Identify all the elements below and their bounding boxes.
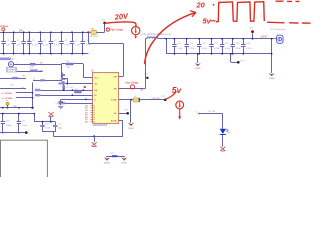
svg-text:GND: GND [39, 70, 44, 72]
node IN net red text [40, 63, 43, 65]
wire FB1 to TP1 corner [97, 23, 105, 32]
svg-text:L1 P/N: XAL5030-472MEC 4.7uH: L1 P/N: XAL5030-472MEC 4.7uH [140, 33, 171, 36]
wire elbow to cap pair [33, 113, 55, 122]
wire U1 VDD pin to 20V vertical [119, 76, 124, 78]
svg-text:4.7uF: 4.7uF [75, 45, 81, 47]
test point GND stub with black dot [230, 53, 243, 64]
svg-text:C12: C12 [55, 103, 58, 105]
wire rail y113.6 [0, 113, 34, 115]
wire VOUT top rail [159, 38, 273, 40]
svg-text:D1: D1 [227, 130, 229, 132]
svg-text:PGND: PGND [121, 162, 127, 164]
capacitor C4 [22, 31, 31, 54]
svg-text:49.9: 49.9 [29, 67, 33, 69]
capacitor C6 [38, 31, 49, 54]
annotation 5v text [172, 85, 183, 95]
wire diode to TP7 [140, 99, 165, 101]
wire resistor R7 row [200, 114, 223, 129]
svg-text:4.7uF: 4.7uF [202, 48, 208, 50]
node nc marker gray [60, 128, 62, 130]
wire left vertical x32.5 [32, 83, 34, 108]
wire loop left vertical [61, 64, 67, 84]
wire VOUT bottom rail [166, 53, 271, 55]
test point TP1 [101, 20, 106, 24]
wire AGND long run [53, 135, 123, 137]
wire HI signal stub [0, 85, 26, 90]
capacitor C17 vertical [62, 84, 73, 91]
wire 20V rail junction down to VDD [87, 31, 123, 76]
wire rail y107.8 [0, 107, 34, 109]
annotation arrow swoosh [145, 11, 196, 64]
node red NC marker [84, 86, 86, 88]
svg-text:High Voltage: High Voltage [110, 29, 124, 32]
annotation 5V wire (hand-drawn) [166, 92, 176, 99]
svg-text:TP6: TP6 [124, 110, 127, 112]
wire J2 to R1 [14, 64, 62, 66]
svg-text:R5: R5 [66, 61, 68, 63]
wire VOUT bank left vertical [165, 38, 167, 54]
capacitor C22 [220, 38, 231, 55]
svg-text:PGND: PGND [195, 68, 201, 70]
svg-text:4.7uF: 4.7uF [246, 48, 252, 50]
annotation 20V supply wire (hand-drawn) [105, 22, 136, 26]
node black dot GND [25, 131, 30, 135]
svg-text:PGND: PGND [111, 100, 118, 102]
node 20V net label [19, 30, 24, 32]
node part number LMG1020YFF [93, 125, 108, 127]
wire row into HB pin [59, 82, 93, 85]
svg-text:1: 1 [275, 34, 276, 36]
node U1 right pin stubs [119, 77, 121, 121]
capacitor C10b [1, 113, 12, 134]
svg-text:R7 1.0k: R7 1.0k [209, 111, 216, 113]
node HI_SIGNAL red label [2, 92, 33, 95]
svg-text:4.7uF: 4.7uF [190, 48, 196, 50]
svg-text:20V: 20V [113, 11, 129, 22]
svg-text:PGND: PGND [269, 78, 275, 80]
connector J2 SMA [6, 62, 17, 72]
node U1 NC pin cluster [85, 105, 96, 123]
connector J4 VOUT [270, 28, 285, 44]
wire net tie NT1 [107, 153, 125, 157]
wire LED to ground [222, 135, 224, 147]
resistor R5 loop [61, 61, 83, 69]
svg-text:MPZ1608: MPZ1608 [90, 36, 98, 38]
capacitor C9 [70, 31, 81, 54]
svg-text:IN-: IN- [114, 113, 117, 115]
svg-text:AGND: AGND [104, 161, 110, 164]
wire AGND from U1 [119, 121, 123, 137]
wire VOUT right vertical [271, 38, 273, 73]
svg-text:Low Voltage: Low Voltage [0, 25, 9, 28]
svg-text:AGND: AGND [111, 120, 118, 123]
svg-text:4.7k: 4.7k [66, 67, 70, 69]
ferrite bead FB1 [90, 28, 98, 38]
svg-text:4.7uF: 4.7uF [54, 45, 60, 47]
capacitor C5 [27, 31, 38, 54]
svg-text:EN: EN [114, 88, 117, 90]
test point TP2 [249, 27, 254, 39]
annotation 20 text [196, 0, 215, 9]
capacitor C23 [231, 38, 242, 55]
wire row into HI pin [35, 89, 93, 91]
svg-text:VCC: VCC [94, 77, 99, 79]
annotation inductor part number text [140, 33, 171, 36]
node net label IN box [0, 58, 14, 62]
capacitor C15 [53, 122, 62, 132]
svg-text:LMG1020YFF: LMG1020YFF [93, 125, 108, 127]
diode D2 [133, 96, 140, 102]
wire row into LI pin [35, 94, 93, 96]
svg-text:C17 1nF: C17 1nF [66, 87, 74, 89]
wire rail y132.6 [0, 132, 26, 134]
svg-text:4.7uF: 4.7uF [236, 48, 242, 50]
resistor R1 [29, 63, 35, 69]
svg-text:HI_SIGNAL: HI_SIGNAL [2, 92, 13, 95]
capacitor C12 [55, 99, 63, 105]
wire GND bottom rail left bank [0, 53, 88, 55]
capacitor C19 [185, 38, 196, 55]
svg-text:VOUT: VOUT [261, 35, 268, 38]
capacitor C21 [209, 38, 220, 55]
svg-text:4.7uF: 4.7uF [214, 48, 220, 50]
wire row y103.2 [59, 102, 93, 104]
wire row y99.4 [61, 99, 93, 101]
svg-text:nc: nc [60, 128, 62, 130]
svg-text:5V0: 5V0 [13, 106, 16, 108]
svg-text:4.7uF: 4.7uF [64, 45, 70, 47]
node OUT net label red [140, 90, 143, 92]
svg-text:5v: 5v [203, 16, 212, 25]
ground red X above cap pair [48, 112, 53, 123]
svg-text:LED: LED [227, 133, 231, 135]
test point TP9 yellow [5, 100, 9, 107]
node red label on rail [13, 106, 16, 108]
svg-text:C14: C14 [45, 123, 48, 125]
capacitor C11b [17, 113, 28, 134]
svg-text:UIN: UIN [113, 76, 117, 78]
svg-text:4.7uF: 4.7uF [43, 45, 49, 47]
wire net row y80.5 [33, 79, 62, 82]
wire net row y78 [0, 76, 26, 80]
svg-text:5V0_5V5: 5V0_5V5 [152, 98, 161, 100]
ground PGND below diode [128, 100, 134, 130]
svg-text:20V: 20V [19, 30, 24, 32]
svg-text:TP9: TP9 [5, 100, 8, 102]
capacitor C14 [40, 121, 51, 132]
resistor R7 label [209, 111, 216, 113]
capacitor C2 [1, 31, 10, 54]
svg-text:100pF: 100pF [6, 125, 12, 127]
LED D1 [220, 129, 232, 135]
op-amp U1 LMG1020 gate driver [91, 69, 119, 123]
ground PGND arrow right [121, 156, 127, 164]
svg-text:D2: D2 [134, 96, 136, 98]
ground PGND right [269, 73, 275, 80]
node U1 right pin names [111, 76, 118, 122]
ground below C12 [58, 107, 63, 109]
ground red X on AGND [92, 136, 97, 146]
capacitor C24 [241, 38, 252, 55]
svg-text:4.7uF: 4.7uF [225, 48, 231, 50]
ground PGND drop left [195, 53, 201, 70]
annotation voltage source circle 20V [132, 27, 140, 39]
capacitor C13 [61, 73, 65, 78]
annotation square wave [216, 1, 310, 23]
svg-text:TP5: TP5 [144, 74, 147, 76]
annotation 20V text [113, 11, 129, 22]
svg-text:4.7uF: 4.7uF [86, 45, 92, 47]
svg-text:20: 20 [196, 0, 206, 9]
svg-text:C15: C15 [58, 123, 61, 125]
resistor R4 [74, 89, 82, 93]
wire cap pair bottom [43, 132, 56, 137]
wire 20V top rail left bank [0, 32, 91, 34]
node High Voltage marker at OUT [126, 81, 140, 89]
svg-text:NT1: NT1 [111, 153, 114, 155]
test point TP6 [119, 110, 129, 115]
svg-text:R4 0: R4 0 [75, 89, 79, 91]
svg-text:VOUT (drive top): VOUT (drive top) [270, 28, 285, 31]
svg-text:0.1uF: 0.1uF [22, 125, 28, 127]
svg-text:TP4: TP4 [240, 61, 243, 63]
ground red X below LED [220, 147, 225, 151]
wire 5V supply row [119, 99, 134, 101]
wire J2 ground row [17, 69, 44, 72]
node LO_SIGNAL red label [2, 97, 33, 100]
node High Voltage marker at TP1 [106, 28, 124, 32]
node pin 2 red marker [196, 112, 200, 115]
node 5V net label red [152, 98, 161, 100]
sheet block bottom left [1, 140, 48, 178]
svg-text:4.7uF: 4.7uF [32, 45, 38, 47]
svg-text:TP7: TP7 [161, 96, 164, 98]
capacitor C10 [81, 31, 92, 54]
inductor L1 [146, 37, 160, 39]
svg-text:1: 1 [16, 62, 17, 64]
node VOUT net label [261, 35, 268, 38]
svg-text:5v: 5v [172, 85, 183, 95]
capacitor C3 [12, 31, 21, 54]
node Low Voltage marker [0, 25, 9, 31]
capacitor C8 [59, 31, 70, 54]
svg-text:2: 2 [196, 112, 197, 114]
test point TP7 [161, 96, 166, 101]
capacitor C20 [197, 38, 208, 55]
test point TP5 [144, 74, 148, 79]
svg-text:High Voltage: High Voltage [126, 81, 140, 84]
wire OUT net to inductor [119, 39, 146, 89]
annotation 5V text [203, 16, 216, 25]
annotation voltage source circle 5V [176, 101, 184, 120]
wire loop right vertical [83, 64, 92, 78]
svg-text:GD: GD [94, 83, 98, 85]
node U1 left pin stubs [90, 78, 92, 104]
ground below C13 [60, 80, 65, 83]
svg-text:4.7uF: 4.7uF [177, 48, 183, 50]
capacitor C18 [172, 38, 183, 55]
svg-text:2.2uF: 2.2uF [45, 128, 51, 130]
node U1 left pin names [94, 77, 99, 101]
ground AGND arrow left [104, 156, 110, 164]
svg-text:PGND: PGND [128, 128, 134, 130]
svg-text:IN8: IN8 [85, 122, 88, 124]
capacitor C7 [49, 31, 60, 54]
svg-text:R2 0: R2 0 [11, 85, 15, 87]
